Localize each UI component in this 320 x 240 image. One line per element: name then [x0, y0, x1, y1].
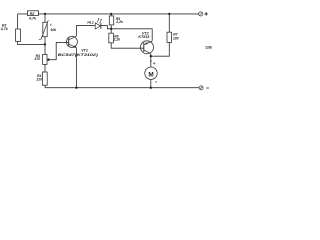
- ink blob on motor lead: [150, 60, 152, 62]
- transistor VT2 lower diagonal: [144, 50, 151, 54]
- motor M1 circle: [145, 67, 157, 79]
- transistor VT1 collector diagonal: [69, 36, 77, 40]
- transistor VT1 emitter arrow: [74, 45, 77, 47]
- wire VT1 emitter to bottom rail: [75, 48, 77, 88]
- svg-text:180: 180: [173, 36, 179, 40]
- motor minus mark: [155, 81, 157, 83]
- svg-text:10k: 10k: [50, 28, 57, 32]
- svg-text:2,2k: 2,2k: [113, 38, 122, 42]
- resistor R3: [43, 54, 47, 64]
- node dot R3 tap: [47, 59, 49, 61]
- LED HL1 triangle: [95, 23, 100, 29]
- transistor VT2 upper diagonal: [144, 41, 152, 45]
- svg-text:KT815: KT815: [138, 35, 150, 39]
- svg-text:4,7k: 4,7k: [0, 27, 9, 31]
- wire VT1 collector to LED to node B: [76, 26, 111, 37]
- resistor R6: [109, 33, 114, 43]
- thermistor RK1 body: [43, 22, 47, 36]
- resistor R1: [16, 29, 21, 42]
- LED HL1 cathode bar: [100, 23, 102, 29]
- wire left branch R1 column: [18, 14, 45, 45]
- node dot VT1 emitter rail: [75, 87, 77, 89]
- wire top rail: [18, 13, 199, 15]
- svg-text:4,7k: 4,7k: [28, 16, 37, 20]
- LED light arrow 2: [100, 19, 102, 23]
- wire node B to VT2 collector: [111, 29, 152, 41]
- svg-text:470: 470: [34, 57, 41, 61]
- node dot thermistor top: [44, 13, 46, 15]
- thermistor strike line: [39, 20, 49, 39]
- transistor VT1 base bar: [68, 38, 70, 47]
- svg-text:BC547(KT3102): BC547(KT3102): [58, 53, 99, 57]
- svg-text:HL1: HL1: [87, 20, 94, 24]
- transistor VT2 arrow: [145, 43, 148, 45]
- svg-text:2,2k: 2,2k: [115, 20, 124, 24]
- transistor VT1 circle: [66, 36, 77, 47]
- wire R3 tap to VT1 base: [49, 42, 69, 59]
- wire VT2 emitter to motor to bottom rail: [150, 54, 152, 88]
- LED light arrow 1: [97, 19, 99, 23]
- transistor VT1 emitter diagonal: [69, 44, 77, 47]
- svg-text:12B: 12B: [205, 45, 212, 49]
- terminal minus: [199, 86, 203, 90]
- transistor VT2 base bar: [143, 43, 145, 52]
- wire bottom rail: [45, 87, 199, 89]
- terminal plus: [199, 12, 203, 16]
- wire R5 R6 column to VT2 base: [111, 14, 144, 48]
- svg-text:t: t: [50, 23, 52, 27]
- resistor R2: [27, 11, 38, 16]
- node dot R7 top: [168, 13, 170, 15]
- svg-text:M: M: [148, 72, 153, 79]
- svg-text:+: +: [153, 61, 156, 66]
- transistor VT2 circle: [141, 41, 154, 54]
- node dot B: [110, 28, 112, 30]
- svg-text:120: 120: [36, 78, 42, 82]
- wire thermistor/R3/R4 column: [44, 14, 46, 88]
- svg-text:VT1: VT1: [81, 49, 88, 53]
- node dot A divider: [44, 43, 46, 45]
- wire R7 column and branch to emitter node: [151, 14, 170, 56]
- node dot motor rail: [150, 87, 152, 89]
- resistor R7: [167, 32, 172, 42]
- node dot R5 top: [110, 13, 112, 15]
- resistor R5: [109, 16, 113, 25]
- resistor R4: [42, 72, 47, 85]
- node dot emitter R7: [150, 55, 152, 57]
